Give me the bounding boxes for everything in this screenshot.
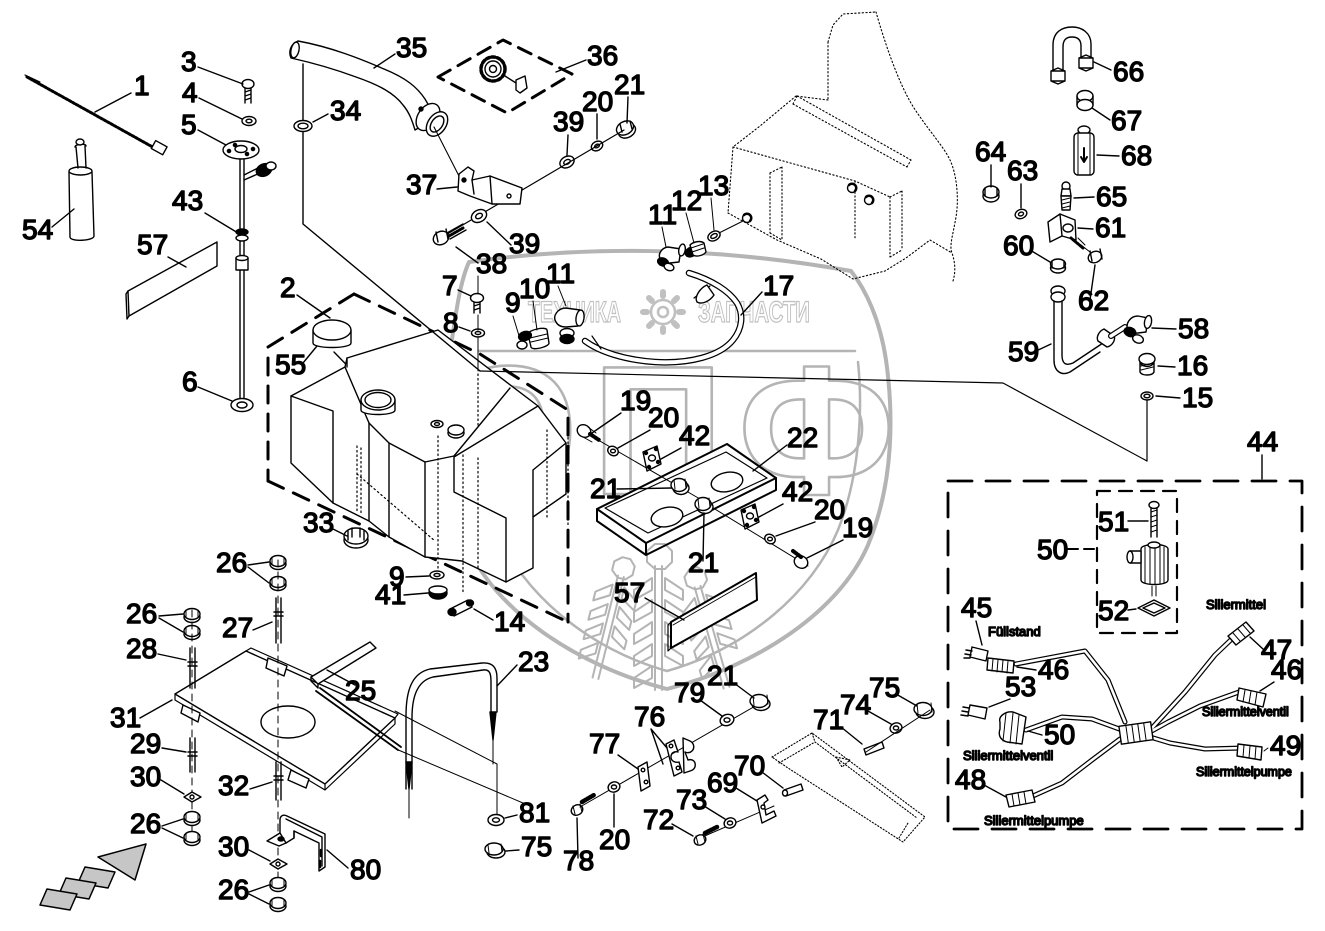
washer 20 bottom: [607, 780, 622, 794]
svg-text:76: 76: [634, 701, 665, 732]
tank top cap nut: [448, 425, 464, 438]
tank dotted level lines: [357, 374, 568, 594]
part 4 washer: [242, 117, 256, 126]
knob in box 36: [481, 57, 527, 93]
svg-text:67: 67: [1111, 105, 1142, 136]
svg-text:46: 46: [1038, 654, 1069, 685]
svg-text:75: 75: [869, 672, 900, 703]
svg-text:78: 78: [563, 845, 594, 876]
svg-text:21: 21: [707, 660, 738, 691]
nut 33: [344, 528, 368, 548]
bracket 37: [458, 167, 522, 204]
leader 13 to hole: [719, 220, 745, 233]
washer 74: [889, 721, 904, 735]
svg-text:19: 19: [842, 512, 873, 543]
bracket 61: [1048, 214, 1076, 242]
washer 8: [472, 329, 485, 337]
svg-text:15: 15: [1182, 382, 1213, 413]
bolt 19 right: [792, 551, 810, 571]
plate 42 left: [643, 446, 661, 471]
nut 60: [1051, 259, 1066, 273]
machine body dotted outline: [728, 12, 957, 281]
svg-text:53: 53: [1005, 671, 1036, 702]
svg-text:74: 74: [840, 689, 871, 720]
stud 28: [188, 648, 197, 688]
stud 32: [274, 762, 283, 800]
plug 45: [964, 647, 988, 661]
washer 9 under tank: [430, 571, 444, 579]
harness wires: [1016, 634, 1243, 800]
svg-text:1: 1: [134, 70, 150, 101]
svg-text:65: 65: [1096, 181, 1127, 212]
arrow bottom-left: [40, 844, 146, 910]
svg-text:26: 26: [216, 547, 247, 578]
svg-text:7: 7: [442, 270, 458, 301]
svg-text:42: 42: [679, 420, 710, 451]
svg-text:20: 20: [648, 402, 679, 433]
svg-text:20: 20: [599, 824, 630, 855]
fitting 16: [1139, 354, 1155, 376]
washer 20 right: [763, 532, 777, 545]
hose 35 flange: [411, 99, 452, 140]
svg-text:35: 35: [396, 32, 427, 63]
screw 7: [471, 294, 484, 314]
svg-text:49: 49: [1270, 730, 1301, 761]
svg-text:66: 66: [1113, 56, 1144, 87]
center stud column: nuts 26 top: [270, 556, 286, 591]
bolt 72: [692, 827, 717, 847]
svg-text:39: 39: [509, 228, 540, 259]
tank filler neck: [361, 390, 395, 415]
svg-text:54: 54: [22, 214, 53, 245]
svg-text:37: 37: [406, 169, 437, 200]
u-rod 23: [406, 663, 497, 818]
plate 31 assembly: [175, 648, 401, 790]
svg-text:28: 28: [126, 633, 157, 664]
svg-text:8: 8: [443, 307, 459, 338]
washer 20 top: [590, 139, 605, 153]
svg-text:68: 68: [1121, 140, 1152, 171]
square washer 30 left: [184, 792, 201, 802]
svg-text:26: 26: [218, 874, 249, 905]
tank top small washer: [431, 421, 443, 428]
part 3 screw: [242, 80, 254, 104]
svg-text:34: 34: [330, 95, 361, 126]
stud 29: [188, 738, 197, 772]
svg-text:42: 42: [782, 476, 813, 507]
svg-text:51: 51: [1098, 506, 1129, 537]
pipe 59: [1051, 286, 1125, 374]
bracket 69: [757, 795, 776, 823]
svg-text:79: 79: [674, 677, 705, 708]
bracket 80: [267, 815, 325, 871]
svg-text:57: 57: [137, 229, 168, 260]
svg-text:Siliermittel: Siliermittel: [1206, 597, 1266, 612]
long leader line tank to fittings: [480, 371, 1147, 461]
svg-text:27: 27: [222, 612, 253, 643]
svg-text:72: 72: [643, 804, 674, 835]
svg-text:30: 30: [218, 831, 249, 862]
svg-text:14: 14: [494, 606, 525, 637]
svg-text:4: 4: [182, 77, 198, 108]
fitting 67: [1077, 91, 1093, 111]
nuts 26 left-bottom: [184, 812, 200, 846]
connector 46 right: [1237, 688, 1266, 707]
axis line 38-21: [444, 130, 624, 236]
dotted chute 71: [772, 733, 925, 842]
square washer 52: [1138, 600, 1170, 616]
part 1 rod (cable tie): [25, 75, 167, 155]
o-ring 34: [294, 121, 312, 132]
nuts 26 bottom: [270, 878, 286, 912]
svg-text:21: 21: [614, 69, 645, 100]
dashed box 44: [948, 481, 1302, 829]
svg-text:39: 39: [553, 106, 584, 137]
part 55 cap: [313, 320, 351, 348]
nut 21 top: [614, 118, 638, 141]
svg-text:17: 17: [763, 270, 794, 301]
hose 17: [585, 273, 741, 362]
svg-text:55: 55: [275, 349, 306, 380]
watermark wheat ear right: [672, 563, 747, 694]
svg-text:41: 41: [375, 579, 406, 610]
dashed axis center: [277, 560, 279, 878]
leader line hose to tank: [303, 64, 480, 371]
washer 79: [719, 712, 736, 727]
svg-text:26: 26: [126, 598, 157, 629]
svg-text:29: 29: [130, 728, 161, 759]
o-ring 13: [706, 229, 722, 243]
svg-text:Siliermittelventil: Siliermittelventil: [963, 748, 1053, 763]
pin 71: [864, 742, 884, 755]
tray 22: [597, 444, 776, 555]
upper elbow 11: [656, 244, 686, 272]
bolt 38: [431, 224, 466, 247]
bar 25: [311, 642, 376, 688]
panel 57 lower: [668, 573, 757, 651]
svg-text:62: 62: [1078, 285, 1109, 316]
plate 42 right: [741, 504, 759, 529]
svg-text:Siliermittelpumpe: Siliermittelpumpe: [984, 813, 1084, 828]
fitting 12: [684, 242, 706, 259]
svg-text:26: 26: [130, 808, 161, 839]
svg-text:Siliermittelventil: Siliermittelventil: [1202, 705, 1289, 719]
nut 21 bottom: [750, 695, 770, 711]
nut 75 bottom-left: [485, 843, 505, 858]
part 54 sealant tube: [69, 139, 94, 240]
svg-text:3: 3: [181, 46, 197, 77]
washer 73: [723, 816, 738, 830]
svg-text:30: 30: [130, 761, 161, 792]
nut 75 bottom-right: [914, 703, 934, 719]
svg-text:43: 43: [172, 185, 203, 216]
washer 39 top: [558, 154, 576, 171]
axis 21-19 right: [705, 503, 808, 566]
stud 27: [274, 598, 283, 643]
watermark shield outer: [444, 251, 890, 689]
svg-text:25: 25: [345, 675, 376, 706]
watermark shield inner: [474, 351, 860, 671]
axis 71-75: [866, 710, 930, 752]
svg-text:50: 50: [1037, 534, 1068, 565]
dashed box 36: [438, 40, 572, 113]
svg-text:Siliermittelpumpe: Siliermittelpumpe: [1196, 765, 1292, 779]
svg-text:52: 52: [1098, 595, 1129, 626]
left stud column: nuts 26: [184, 609, 200, 640]
svg-text:73: 73: [676, 784, 707, 815]
leader 7/8 into tank: [477, 276, 479, 371]
svg-text:6: 6: [182, 366, 198, 397]
part 43 fuel sender tube: [231, 159, 276, 412]
valve coil 50 lower: [999, 712, 1026, 744]
svg-text:36: 36: [587, 40, 618, 71]
svg-text:44: 44: [1247, 426, 1278, 457]
tube 66: [1051, 27, 1093, 84]
nut 21 right: [695, 498, 713, 514]
dashed box 2: [268, 294, 568, 622]
square washer 30 bottom: [270, 859, 287, 869]
cap 41: [429, 586, 447, 599]
watermark wheat ear left: [575, 553, 646, 683]
svg-text:45: 45: [961, 592, 992, 623]
washer 39 lower: [469, 207, 489, 225]
svg-text:46: 46: [1271, 654, 1302, 685]
bolt 78: [569, 795, 594, 817]
svg-text:2: 2: [280, 272, 296, 303]
svg-text:Füllstand: Füllstand: [988, 624, 1041, 639]
connector 49: [1237, 744, 1262, 760]
svg-text:32: 32: [218, 770, 249, 801]
axis 72-69: [700, 806, 774, 838]
dashed axis left: [191, 610, 193, 845]
washer 81: [488, 815, 504, 826]
pin 70: [783, 784, 804, 796]
nut 21 left: [671, 479, 689, 495]
elbow 58: [1123, 315, 1153, 345]
solenoid valve 50: [1127, 542, 1168, 596]
svg-text:64: 64: [975, 136, 1006, 167]
plug 53: [961, 705, 987, 719]
svg-text:21: 21: [590, 473, 621, 504]
harness junction: [1119, 722, 1153, 744]
axis 78-21: [580, 701, 764, 807]
svg-text:61: 61: [1095, 212, 1126, 243]
svg-text:16: 16: [1177, 350, 1208, 381]
machine bolt holes: [743, 184, 874, 223]
panel thin outline: [395, 711, 530, 815]
watermark gear icon: [643, 292, 683, 332]
svg-text:77: 77: [589, 728, 620, 759]
bolt 62: [1071, 238, 1104, 265]
nut 64: [983, 186, 999, 202]
svg-text:13: 13: [698, 170, 729, 201]
o-ring 15: [1141, 392, 1153, 400]
svg-text:48: 48: [955, 764, 986, 795]
nipple 65: [1061, 182, 1071, 210]
svg-text:70: 70: [734, 750, 765, 781]
bolt 19 left: [575, 422, 599, 442]
fuel tank body: [291, 330, 566, 582]
svg-text:38: 38: [476, 248, 507, 279]
svg-text:23: 23: [518, 646, 549, 677]
svg-text:50: 50: [1044, 719, 1075, 750]
svg-text:57: 57: [614, 577, 645, 608]
leader flange to bracket: [434, 127, 459, 176]
svg-text:19: 19: [620, 385, 651, 416]
watermark wheat ear middle: [634, 544, 683, 690]
svg-text:22: 22: [787, 422, 818, 453]
connector 47: [1228, 622, 1254, 645]
svg-text:81: 81: [519, 797, 550, 828]
clamp halves 76: [666, 738, 695, 776]
pin 14: [448, 600, 474, 616]
svg-text:33: 33: [303, 507, 334, 538]
svg-text:5: 5: [181, 109, 197, 140]
svg-text:63: 63: [1007, 155, 1038, 186]
connector 48: [1006, 790, 1035, 807]
elbow fitting 9/10/11: [517, 308, 585, 349]
inner dashed box 50: [1097, 491, 1177, 633]
svg-text:58: 58: [1178, 313, 1209, 344]
svg-text:60: 60: [1003, 230, 1034, 261]
svg-text:20: 20: [582, 86, 613, 117]
hose 35: [289, 41, 434, 130]
plate 77: [638, 762, 650, 791]
washer 63: [1014, 208, 1028, 221]
svg-text:11: 11: [546, 258, 575, 289]
bolt 51: [1149, 502, 1159, 538]
svg-text:20: 20: [814, 494, 845, 525]
svg-text:75: 75: [521, 831, 552, 862]
part 5 flange: [223, 141, 259, 159]
filter 68: [1074, 126, 1094, 175]
svg-text:80: 80: [350, 854, 381, 885]
connector 46 left: [987, 658, 1014, 673]
part 57 left plate: [126, 242, 217, 319]
washer 20 left: [606, 444, 620, 457]
axis 19-21 left: [586, 433, 700, 499]
